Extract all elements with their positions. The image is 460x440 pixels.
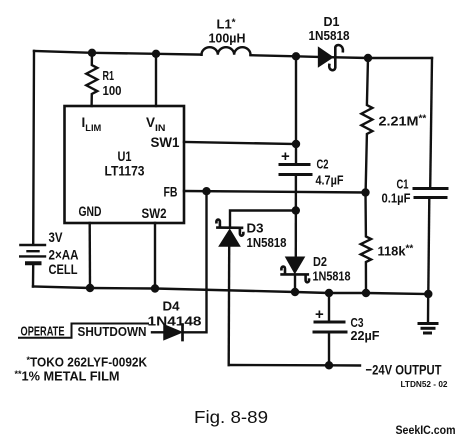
capacitor C3 22uF [314, 293, 346, 365]
ground [419, 294, 437, 333]
svg-text:SW2: SW2 [142, 206, 167, 221]
svg-text:1N5818: 1N5818 [313, 269, 351, 284]
label LTDN52-02 [401, 380, 449, 389]
label -24V OUTPUT [366, 362, 442, 378]
svg-text:100: 100 [103, 83, 122, 98]
inductor L1 100uH [202, 47, 251, 55]
svg-text:U1: U1 [118, 149, 132, 164]
svg-text:LT1173: LT1173 [105, 164, 145, 179]
label R1 100 [103, 68, 122, 98]
svg-text:D3: D3 [247, 221, 264, 236]
node C1 bottom [424, 290, 432, 298]
svg-text:2.21M**: 2.21M** [379, 114, 427, 129]
wire left rail [32, 51, 35, 245]
resistor 118k [361, 193, 371, 294]
node SW1-C2 [292, 140, 300, 148]
svg-text:LTDN52 - 02: LTDN52 - 02 [401, 380, 449, 389]
wire FB to D4 vertical [185, 191, 207, 332]
svg-text:+: + [315, 306, 324, 323]
label OPERATE/SHUTDOWN [21, 324, 147, 340]
svg-text:118k**: 118k** [378, 244, 414, 259]
label D1 1N5818 [309, 14, 350, 43]
label C2 4.7uF [316, 157, 344, 188]
svg-text:4.7µF: 4.7µF [316, 173, 344, 188]
node 2.21M branch top [364, 54, 372, 62]
svg-text:22µF: 22µF [351, 328, 380, 343]
wire bottom rail [33, 287, 428, 295]
label 2.21M** [379, 114, 427, 129]
node VIN [152, 50, 160, 58]
svg-text:SHUTDOWN: SHUTDOWN [78, 324, 147, 339]
svg-text:ILIM: ILIM [82, 115, 102, 134]
battery B1 3V 2xAA [20, 245, 45, 287]
svg-text:CELL: CELL [49, 262, 78, 277]
svg-text:1N5818: 1N5818 [247, 235, 287, 250]
label U1 pins [79, 115, 180, 221]
wire top rail [34, 51, 432, 58]
wire C1 bottom [428, 198, 429, 295]
node C3 top [325, 289, 333, 297]
resistor R1 [86, 53, 97, 106]
svg-text:C2: C2 [317, 157, 329, 172]
wire GND stub [88, 223, 91, 288]
svg-text:SeekIC.com: SeekIC.com [396, 425, 456, 437]
svg-text:*TOKO 262LYF-0092K: *TOKO 262LYF-0092K [27, 355, 148, 370]
node GND-bottom [86, 284, 94, 292]
node D2 bottom [291, 288, 299, 296]
capacitor C2 4.7uF [280, 165, 311, 175]
svg-text:OPERATE: OPERATE [21, 324, 65, 339]
IC U1 LT1173 box [65, 106, 185, 223]
svg-text:**1% METAL FILM: **1% METAL FILM [15, 369, 120, 384]
node output [325, 361, 333, 369]
label D2 1N5818 [313, 254, 351, 284]
node FB-divider [361, 188, 369, 196]
node C2 branch top [292, 52, 300, 60]
label C3 plus [315, 306, 324, 323]
svg-text:2×AA: 2×AA [49, 248, 79, 263]
diode D3 1N5818 [216, 220, 243, 365]
label 118k** [378, 244, 414, 259]
label Fig. 8-89 [194, 407, 268, 427]
svg-text:3V: 3V [49, 230, 63, 245]
label footnote TOKO [15, 355, 148, 384]
node SW2-bottom [151, 284, 159, 292]
label C1 0.1uF [382, 177, 411, 206]
svg-text:GND: GND [79, 204, 102, 219]
label D3 1N5818 [247, 221, 287, 251]
label C3 22uF [351, 315, 380, 343]
wire top-right corner to C1 [430, 58, 432, 188]
diode D4 1N4148 [152, 325, 183, 341]
wire VIN stub [155, 54, 157, 106]
svg-text:R1: R1 [103, 68, 115, 83]
wire C2/D2 vertical [295, 56, 296, 292]
wire output rail [229, 364, 360, 367]
svg-text:+: + [281, 148, 290, 165]
capacitor C1 0.1uF [414, 189, 447, 198]
svg-text:SW1: SW1 [151, 135, 180, 150]
wire FB rail [184, 191, 366, 193]
wire SW2 stub [154, 223, 156, 289]
svg-text:D2: D2 [313, 254, 327, 269]
svg-text:C1: C1 [397, 177, 409, 192]
svg-text:1N5818: 1N5818 [309, 28, 350, 43]
wire SW1 to C2 [184, 142, 296, 144]
svg-text:−24V OUTPUT: −24V OUTPUT [366, 362, 442, 378]
diode D1 1N5818 [319, 45, 343, 70]
svg-text:Fig. 8-89: Fig. 8-89 [194, 407, 268, 427]
svg-text:L1*: L1* [217, 17, 236, 32]
battery label 3V 2xAA CELL [49, 230, 79, 277]
label D4 1N4148 [148, 300, 202, 329]
svg-text:FB: FB [164, 185, 178, 200]
node FB-left [202, 187, 210, 195]
svg-text:D4: D4 [163, 300, 180, 314]
svg-text:D1: D1 [324, 14, 340, 29]
svg-text:100µH: 100µH [209, 31, 246, 46]
label C2 plus [281, 148, 290, 165]
wire operate step [19, 324, 148, 338]
resistor 2.21M [361, 58, 372, 193]
diode D2 1N5818 [281, 257, 309, 282]
wire D3 loop [230, 211, 296, 228]
label SeekIC.com [396, 425, 456, 437]
node D3 loop on C2 line [292, 206, 300, 214]
node 118k bottom [362, 289, 370, 297]
label L1* 100uH [209, 17, 246, 46]
svg-text:0.1µF: 0.1µF [382, 191, 411, 206]
node R1 top [88, 49, 96, 57]
svg-text:VIN: VIN [146, 115, 166, 134]
svg-text:1N4148: 1N4148 [148, 315, 202, 329]
